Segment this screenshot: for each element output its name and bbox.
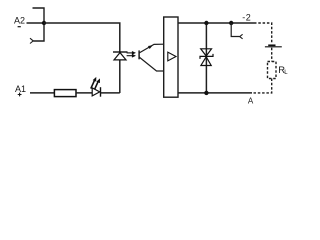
svg-text:A: A	[248, 97, 254, 106]
wire output bottom rail	[178, 92, 252, 94]
wire resistor to LED	[76, 92, 92, 94]
terminal A2 socket hook	[30, 38, 33, 43]
indicator LED triangle	[92, 88, 100, 96]
junction dot suppressor bottom	[204, 91, 208, 95]
terminal -2 stub	[231, 23, 239, 37]
wire output top rail	[178, 22, 254, 24]
svg-text:A1: A1	[15, 84, 26, 94]
opto light arrow upper	[127, 52, 133, 54]
svg-text:A2: A2	[14, 15, 25, 25]
wire A2 to junction	[27, 22, 45, 24]
opto LED triangle	[114, 53, 126, 60]
phototransistor emitter branch	[139, 57, 164, 71]
terminal A2 clamp (vertical with top stub and bottom stub)	[33, 8, 45, 41]
suppressor upper triangle	[201, 49, 212, 56]
terminal -2 socket hook	[240, 34, 243, 39]
dashed wire RL to bottom rail	[252, 79, 272, 93]
dashed wire battery to RL	[271, 48, 273, 62]
label minus polarity of A2	[18, 26, 21, 27]
opto LED cathode bar	[113, 51, 128, 53]
indicator LED emission arrow left	[91, 81, 95, 89]
battery short thick plate	[268, 44, 275, 46]
suppressor lower triangle	[201, 57, 211, 66]
resistor R1	[54, 90, 76, 97]
wire A1 to resistor	[30, 92, 54, 94]
wire top rail and down through opto LED	[44, 23, 120, 93]
output device box	[164, 17, 178, 97]
phototransistor arrowhead	[148, 45, 153, 49]
load resistor RL dashed box	[268, 62, 277, 79]
dashed external wire top	[254, 23, 272, 44]
phototransistor collector branch	[139, 44, 164, 53]
label plus polarity of A1	[18, 93, 22, 97]
svg-text:-2: -2	[242, 13, 251, 23]
indicator LED emission arrow right	[95, 82, 99, 90]
phototransistor base bar	[138, 50, 140, 59]
battery long thin plate	[265, 46, 282, 48]
amplifier triangle inside box	[168, 52, 176, 61]
junction dot suppressor top	[204, 21, 208, 25]
suppressor diode vertical wire	[205, 23, 207, 93]
indicator LED cathode bar	[100, 87, 102, 97]
junction dot A2	[42, 21, 46, 25]
junction dot terminal -2	[229, 21, 233, 25]
suppressor shared cathode bar with zener wings	[200, 54, 213, 59]
wire LED to corner	[101, 92, 120, 94]
opto light arrow lower	[127, 55, 133, 57]
